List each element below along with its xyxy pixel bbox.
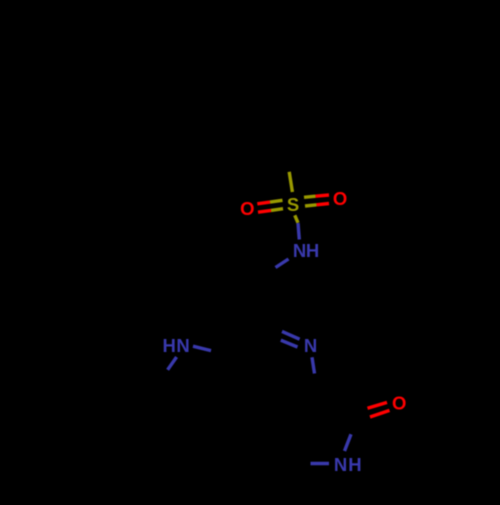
svg-text:H: H [306, 240, 319, 261]
wire bond pyrrole N-C2 nitrogen half [168, 357, 177, 370]
wire bond lactam N-CH2 nitrogen half [311, 462, 330, 465]
wire bond S=O right lower, red O half [317, 204, 330, 205]
wire bond S=O left lower, red O half [258, 210, 271, 212]
wire bond lactam N-C(=O) nitrogen half [345, 434, 352, 451]
svg-text:N: N [176, 335, 189, 356]
wire bond C=N lower line nitrogen half [281, 340, 298, 347]
wire bond S-N nitrogen half [298, 223, 299, 240]
wire bond S=O right upper, red O half [316, 195, 330, 196]
svg-text:N: N [304, 335, 317, 356]
wire bond S-N sulfur half [295, 215, 298, 223]
wire bond S=O left upper, red O half [257, 202, 270, 204]
svg-text:O: O [392, 392, 406, 413]
svg-text:N: N [293, 240, 306, 261]
wire bond pyrrole N-C7a nitrogen half [193, 346, 211, 350]
svg-text:O: O [333, 188, 347, 209]
wire bond S=O right upper, olive S half [304, 196, 316, 197]
svg-text:H: H [348, 454, 361, 475]
wire bond C=N upper line nitrogen half [282, 331, 300, 339]
svg-text:N: N [334, 454, 347, 475]
wire bond S-C(phenyl) sulfur half [289, 172, 292, 192]
wire bond S=O left upper, olive S half [270, 200, 283, 202]
wire bond S=O left lower, olive S half [271, 209, 283, 211]
wire bond C=O upper line oxygen half [368, 402, 388, 408]
svg-text:H: H [163, 335, 176, 356]
svg-text:S: S [287, 194, 299, 215]
wire bond C=O lower line oxygen half [370, 410, 390, 417]
wire bond pyridine N-C down nitrogen half [312, 357, 315, 373]
wire bond N-CH2 nitrogen half [276, 259, 289, 268]
wire bond S=O right lower, olive S half [305, 205, 317, 206]
svg-text:O: O [240, 198, 254, 219]
